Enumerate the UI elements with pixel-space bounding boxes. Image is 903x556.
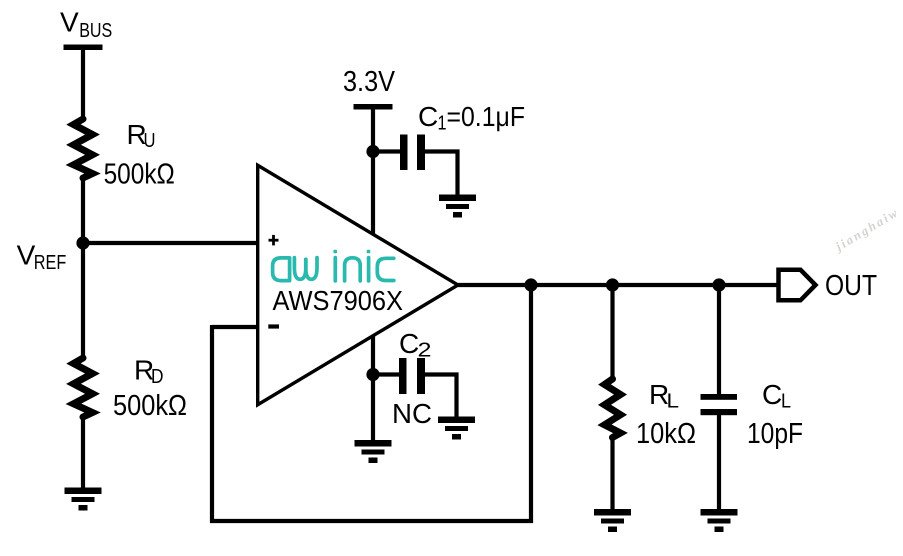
- wire op-amp output: [458, 283, 778, 287]
- svg-text:NC: NC: [392, 398, 432, 429]
- wire supply node to C1: [373, 149, 400, 153]
- wire op-amp bottom to ground: [371, 336, 375, 441]
- logo letter a: [273, 258, 290, 281]
- node C2 junction dot: [366, 368, 379, 381]
- logo letter i dot: [333, 250, 337, 253]
- svg-text:AWS7906X: AWS7906X: [273, 285, 404, 316]
- resistor RL: [605, 379, 621, 438]
- ground right of C2: [438, 417, 475, 440]
- svg-text:C1=0.1μF: C1=0.1μF: [418, 101, 525, 135]
- capacitor CL: [701, 394, 738, 400]
- svg-text:500kΩ: 500kΩ: [113, 390, 187, 422]
- OUT port symbol: [779, 270, 816, 301]
- wire output to RL: [610, 285, 614, 380]
- wire RU to RD through VREF node: [81, 178, 85, 359]
- wire RD to ground: [81, 417, 85, 489]
- op-amp U1 triangle: [258, 165, 458, 404]
- op-amp + input symbol: [269, 239, 279, 242]
- wire feedback right vertical to output: [529, 285, 533, 523]
- VBUS supply rail bar: [64, 45, 103, 51]
- svg-text:10kΩ: 10kΩ: [636, 418, 696, 450]
- logo letter n: [345, 258, 361, 281]
- resistor RU: [74, 119, 93, 178]
- wire feedback left vertical: [210, 325, 214, 523]
- capacitor C1: [400, 135, 408, 171]
- ground below RD: [65, 488, 102, 511]
- svg-text:3.3V: 3.3V: [343, 66, 396, 98]
- ground below op-amp: [355, 440, 392, 463]
- wire VBUS to RU: [81, 47, 85, 121]
- resistor RD: [74, 358, 93, 417]
- node VREF junction dot: [76, 236, 89, 249]
- wire RL to ground: [610, 438, 614, 511]
- awinic logo: [273, 250, 394, 281]
- wire feedback bottom horizontal: [210, 519, 533, 523]
- wire C1 to ground: [425, 152, 458, 197]
- svg-text:10pF: 10pF: [747, 418, 803, 450]
- ground below C1: [439, 195, 476, 218]
- wire feedback: minus input to left leg: [212, 325, 258, 329]
- wire CL to ground: [717, 415, 721, 510]
- svg-text:OUT: OUT: [825, 270, 877, 302]
- node CL junction dot: [712, 278, 725, 291]
- logo letter i dot: [367, 250, 371, 253]
- logo letter i stem: [367, 258, 371, 281]
- node RL junction dot: [606, 278, 619, 291]
- ground below RL: [594, 509, 631, 532]
- capacitor C2: [399, 358, 407, 394]
- ground below CL: [701, 509, 738, 532]
- node output junction dot: [524, 278, 537, 291]
- wire VREF to op-amp + input: [83, 241, 258, 245]
- op-amp - input symbol: [268, 324, 279, 328]
- logo letter i stem: [333, 258, 337, 281]
- wire 3.3V to op-amp top: [371, 106, 375, 234]
- wire node to C2: [373, 372, 399, 376]
- node supply junction dot: [366, 145, 379, 158]
- logo letter w: [294, 258, 305, 280]
- wire output to CL: [717, 285, 721, 395]
- wire C2 to ground: [425, 375, 457, 419]
- 3.3V supply rail bar: [354, 104, 393, 110]
- logo letter c: [377, 258, 394, 280]
- svg-text:500kΩ: 500kΩ: [104, 158, 175, 190]
